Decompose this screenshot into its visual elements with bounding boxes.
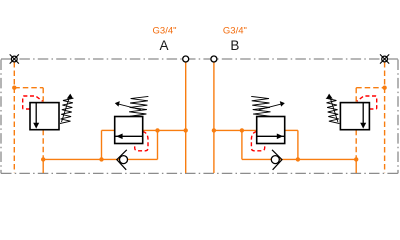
pilot sense line relief valve RV1 (red dashed) bbox=[23, 96, 43, 109]
reducing valve PRV2 flow arrow bbox=[257, 134, 285, 140]
pilot supply line from right plugged port (orange dashed) bbox=[356, 62, 384, 173]
reducing valve PRV1 body bbox=[115, 117, 143, 144]
port B connection circle bbox=[211, 56, 217, 62]
svg-text:G3/4": G3/4" bbox=[223, 26, 247, 37]
plugged port right (circle with X) bbox=[380, 54, 389, 63]
node drain/rail left bbox=[41, 157, 45, 161]
reducing valve PRV2 adjustable spring bbox=[251, 96, 281, 116]
drain line relief valve RV1 to lower rail (orange dashed) bbox=[42, 130, 44, 160]
relief valve RV1 body bbox=[30, 103, 59, 130]
relief valve RV1 adjustable spring bbox=[60, 98, 74, 124]
check valve CV2 bbox=[271, 150, 282, 170]
lower rail right (wire) bbox=[242, 130, 356, 173]
node pilot branch left bbox=[12, 86, 16, 90]
svg-text:B: B bbox=[230, 38, 239, 53]
reducing valve PRV1 adjustable spring bbox=[118, 96, 148, 116]
drain line relief valve RV2 to lower rail (orange dashed) bbox=[355, 130, 357, 160]
port B rail (wire) bbox=[214, 62, 257, 173]
manifold enclosure outline bbox=[1, 59, 398, 173]
node drain/rail right bbox=[354, 157, 358, 161]
node pilot branch right bbox=[382, 86, 386, 90]
node A-rail/riser bbox=[155, 128, 159, 132]
svg-text:G3/4": G3/4" bbox=[153, 26, 177, 37]
check valve CV1 bbox=[117, 150, 128, 170]
relief valve RV2 body bbox=[340, 103, 369, 130]
pilot supply line from left plugged port (orange dashed) bbox=[14, 62, 43, 173]
port A connection circle bbox=[183, 56, 189, 62]
node B-rail/B-line bbox=[212, 128, 216, 132]
lower rail left (wire) bbox=[43, 130, 157, 173]
node rail/riser left bbox=[99, 157, 103, 161]
relief valve RV1 flow arrow bbox=[33, 103, 39, 129]
reducing valve PRV2 body bbox=[257, 117, 285, 144]
node A-rail/A-line bbox=[184, 128, 188, 132]
relief valve RV2 flow arrow bbox=[360, 103, 366, 129]
node B-rail/riser bbox=[240, 128, 244, 132]
reducing valve PRV1 flow arrow bbox=[115, 134, 143, 140]
port A rail (wire) bbox=[143, 62, 186, 173]
node rail/riser right bbox=[296, 157, 300, 161]
pilot sense line reducing valve PRV1 (red dashed) bbox=[135, 132, 148, 151]
pilot sense line relief valve RV2 (red dashed) bbox=[357, 96, 377, 109]
svg-text:A: A bbox=[159, 38, 168, 53]
plugged port left (circle with X) bbox=[10, 54, 19, 63]
relief valve RV2 adjustable spring bbox=[326, 98, 340, 124]
pilot sense line reducing valve PRV2 (red dashed) bbox=[251, 132, 264, 151]
